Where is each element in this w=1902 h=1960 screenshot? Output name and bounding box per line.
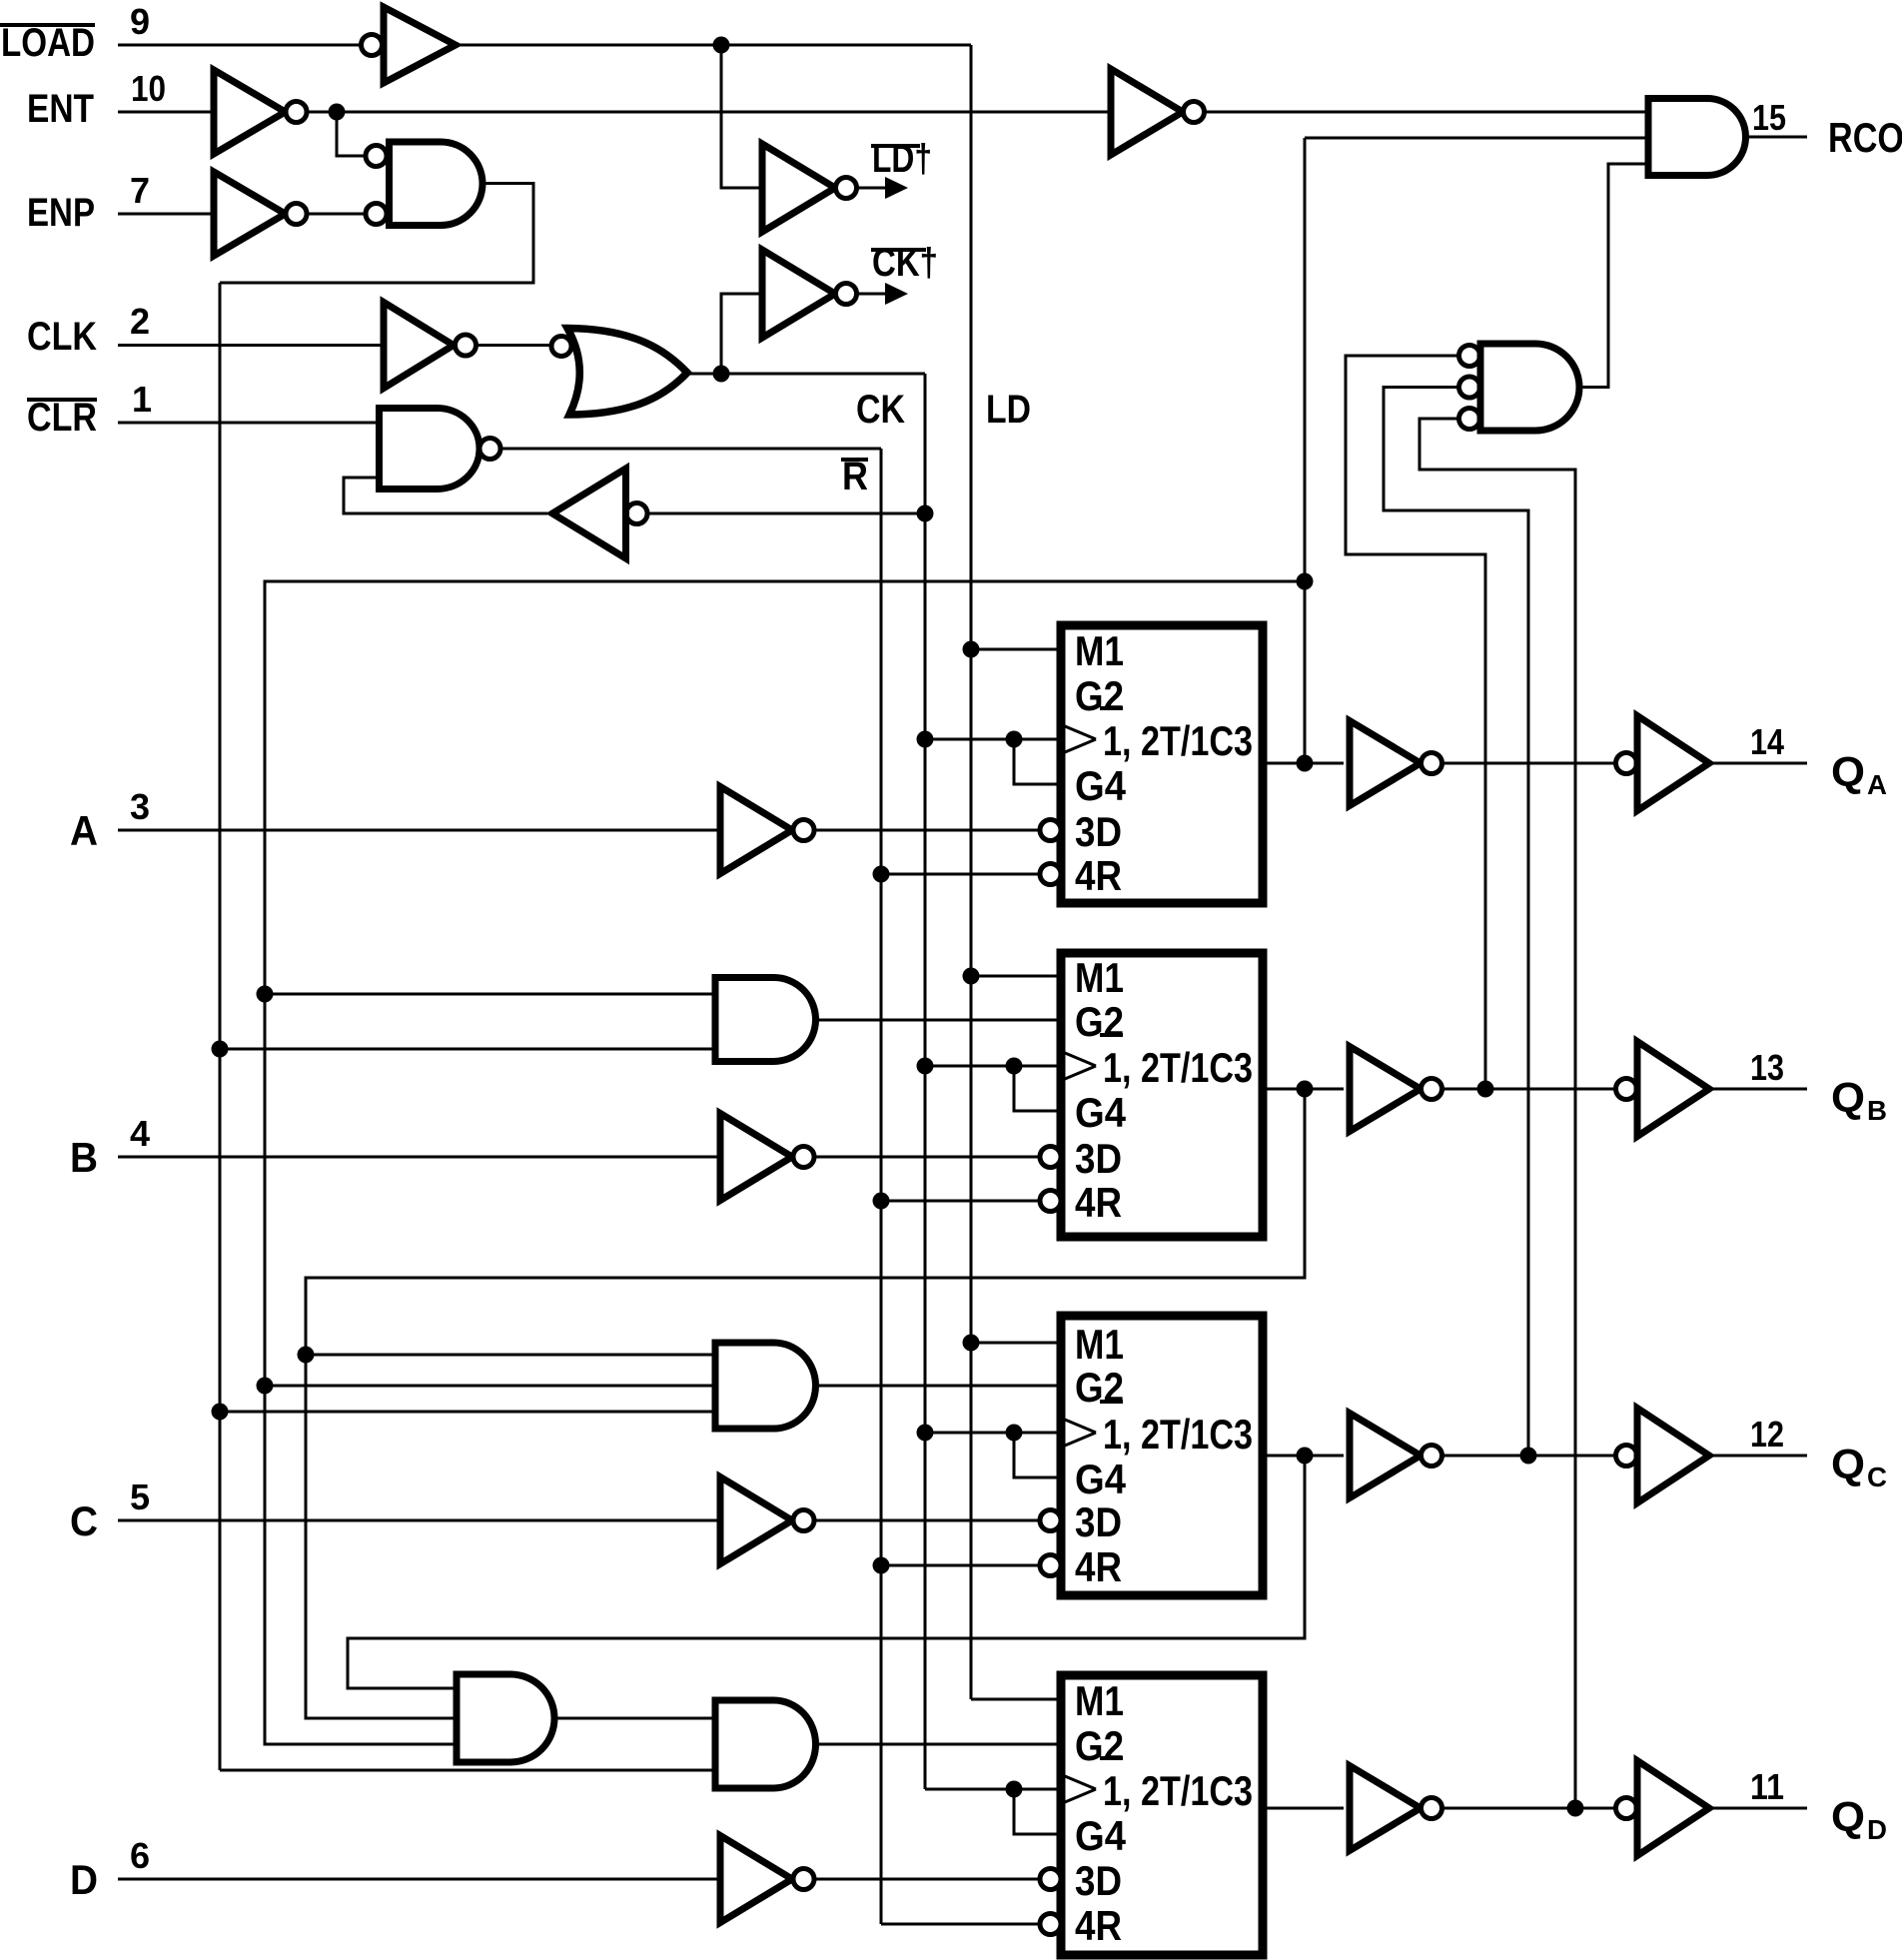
and-gate U16 stage-D collect: [457, 1674, 554, 1762]
inverter U3 ENP: [214, 172, 307, 256]
wire to CK-dagger arrow: [857, 293, 888, 296]
pin 14: [1750, 721, 1784, 762]
svg-text:10: 10: [131, 68, 166, 109]
label LD: [986, 388, 1031, 432]
or-gate U7 clock: [551, 329, 687, 416]
net LOAD: input pin 9 wire: [118, 44, 361, 47]
svg-text:4R: 4R: [1075, 1543, 1122, 1590]
wire CK rail (vertical x=926): [924, 374, 927, 1789]
buffer U10 CK-dagger output: [762, 250, 857, 338]
label D: [70, 1856, 98, 1903]
inverter data C: [720, 1477, 814, 1564]
inverter data D: [720, 1836, 814, 1923]
junction CK branch: [713, 366, 730, 383]
net D: input pin 6 wire: [118, 1878, 720, 1881]
svg-text:9: 9: [130, 1, 150, 42]
wire D-bar to 3D input: [814, 1878, 1040, 1881]
svg-text:G4: G4: [1075, 1089, 1127, 1136]
label RCO: [1828, 114, 1902, 161]
wire B-bar to 3D input: [814, 1156, 1040, 1159]
svg-text:A: A: [1867, 769, 1887, 800]
wire R-bar rail (vertical x=882): [880, 449, 883, 1924]
inverter data B: [720, 1114, 814, 1201]
label C: [70, 1497, 98, 1544]
nand-gate U6 clear: [380, 409, 501, 490]
svg-text:3D: 3D: [1075, 1857, 1122, 1904]
svg-text:14: 14: [1750, 721, 1784, 762]
svg-text:G4: G4: [1075, 1812, 1127, 1859]
svg-text:15: 15: [1752, 97, 1786, 138]
junction enable/U15: [212, 1404, 229, 1421]
net ENP: input pin 7 wire: [118, 213, 214, 216]
svg-text:G2: G2: [1075, 1722, 1124, 1769]
svg-text:M1: M1: [1075, 627, 1124, 674]
and-gate U4 enable (two input bubbles): [366, 142, 482, 226]
net CLK: input pin 2 wire: [118, 344, 384, 347]
svg-text:13: 13: [1750, 1047, 1784, 1088]
wire U16 output to U17: [554, 1717, 715, 1720]
wire LOAD buffer output to LD column: [456, 44, 971, 47]
svg-text:C: C: [70, 1497, 98, 1544]
buffer QC output (input bubble): [1616, 1409, 1710, 1503]
junction G4-D tap: [1006, 1781, 1023, 1798]
label QB: [1831, 1074, 1887, 1126]
and-gate U14 stage-B enable: [715, 978, 816, 1062]
junction CK/B: [917, 1058, 934, 1075]
wire QC to pin: [1709, 1455, 1807, 1458]
svg-text:3D: 3D: [1075, 1498, 1122, 1545]
wire M1-B from LD rail: [971, 975, 1057, 978]
svg-text:G4: G4: [1075, 1456, 1127, 1502]
svg-text:4R: 4R: [1075, 1179, 1122, 1226]
label LD-dagger (overbar): [871, 137, 932, 181]
svg-text:M1: M1: [1075, 954, 1124, 1001]
label CK: [856, 388, 905, 432]
junction QD output feedback: [1567, 1800, 1584, 1817]
buffer U1 LOAD (input bubble): [362, 7, 457, 83]
wire CK net: OR output to CK rail corner: [687, 373, 925, 376]
svg-text:CLR: CLR: [27, 396, 97, 440]
svg-text:12: 12: [1750, 1414, 1784, 1455]
wire QD riser to U13 bottom input: [1420, 419, 1575, 1808]
pin 15: [1752, 97, 1786, 138]
and-gate U17 stage-D enable: [715, 1700, 816, 1788]
label LOAD (overbar): [0, 21, 95, 65]
label CK-dagger (overbar): [871, 241, 938, 285]
svg-text:11: 11: [1750, 1766, 1784, 1807]
arrow CK-dagger: [885, 283, 908, 305]
svg-text:ENT: ENT: [27, 87, 94, 131]
svg-text:A: A: [70, 807, 98, 854]
wire ENP-bar to AND U4: [307, 213, 366, 216]
wire ENT tap to AND U4 input: [337, 112, 366, 156]
inverter QA internal: [1350, 721, 1442, 806]
pin 10: [131, 68, 166, 109]
svg-text:RCO: RCO: [1828, 114, 1902, 161]
label R (overbar): [841, 455, 868, 498]
junction LD/M1-C: [963, 1335, 980, 1352]
junction LD/M1-B: [963, 968, 980, 985]
pin 11: [1750, 1766, 1784, 1807]
net A: input pin 3 wire: [118, 829, 720, 832]
inverter QC internal: [1350, 1414, 1442, 1498]
wire CK-dagger branch: [721, 294, 762, 374]
wire M1-D from LD rail: [971, 1698, 1057, 1701]
label B: [70, 1134, 98, 1181]
svg-text:CLK: CLK: [27, 315, 97, 359]
svg-text:M1: M1: [1075, 1321, 1124, 1368]
svg-text:6: 6: [130, 1835, 150, 1876]
inverter QB internal: [1350, 1047, 1442, 1132]
wire QA to pin: [1709, 762, 1807, 765]
svg-text:1, 2T/1C3: 1, 2T/1C3: [1103, 1044, 1253, 1091]
wire QC to output buffer: [1442, 1455, 1616, 1458]
pin 6: [130, 1835, 150, 1876]
junction CK/A: [917, 731, 934, 748]
svg-text:4R: 4R: [1075, 852, 1122, 899]
pin 9: [130, 1, 150, 42]
junction QA cross: [1297, 573, 1314, 590]
wire QB output: [1263, 1088, 1344, 1091]
svg-text:M1: M1: [1075, 1677, 1124, 1724]
wire U14 output to G2-B: [816, 1019, 1057, 1022]
pin 4: [130, 1113, 150, 1154]
junction QB/U15: [298, 1347, 315, 1364]
wire enable rail (vertical x=220): [219, 283, 222, 1770]
and-gate U13 carry-collect (three input bubbles): [1459, 344, 1580, 431]
buffer QA output (input bubble): [1616, 716, 1710, 811]
wire to LD-dagger arrow: [857, 187, 888, 190]
wire ENT to RCO AND: [1205, 111, 1649, 114]
junction R/C: [873, 1557, 890, 1574]
svg-text:ENP: ENP: [27, 191, 95, 235]
wire QC output: [1263, 1455, 1344, 1458]
svg-text:1, 2T/1C3: 1, 2T/1C3: [1103, 1767, 1253, 1814]
pin 5: [130, 1476, 150, 1517]
flip-flop B (M1 G2 1,2T/1C3 G4 3D 4R): [1040, 953, 1263, 1237]
svg-text:Q: Q: [1831, 748, 1865, 795]
inverter U8 reset-feedback (input bubble, points left): [552, 469, 647, 558]
flip-flop A (M1 G2 1,2T/1C3 G4 3D 4R): [1040, 625, 1263, 903]
svg-text:G2: G2: [1075, 672, 1124, 719]
junction R/A: [873, 866, 890, 883]
wire U14 inputs: [220, 994, 715, 1049]
junction G4-A tap: [1006, 731, 1023, 748]
wire QA output: [1263, 762, 1344, 765]
svg-text:Q: Q: [1831, 1793, 1865, 1840]
pin 1: [132, 379, 152, 420]
wire G4-D tap: [1014, 1789, 1057, 1834]
wire QB to pin: [1709, 1088, 1807, 1091]
wire RCO output: [1746, 136, 1808, 139]
label QA: [1831, 748, 1887, 800]
svg-text:G2: G2: [1075, 998, 1124, 1045]
junction CK/C: [917, 1425, 934, 1442]
pin 2: [130, 301, 150, 342]
svg-text:1, 2T/1C3: 1, 2T/1C3: [1103, 717, 1253, 764]
svg-text:D: D: [70, 1856, 98, 1903]
wire U15 output to G2-C: [816, 1385, 1057, 1388]
junction G4-B tap: [1006, 1058, 1023, 1075]
wire M1-A from LD rail: [971, 648, 1057, 651]
label CLR (overbar): [27, 396, 97, 440]
wire 4R-C from R rail: [881, 1564, 1040, 1567]
inverter U11 ENT (second): [1111, 69, 1205, 155]
wire LD rail (vertical x=972): [970, 45, 973, 1699]
label ENT: [27, 87, 94, 131]
wire U16 inputs: [265, 1688, 457, 1744]
wire 4R-A from R rail: [881, 873, 1040, 876]
pin 12: [1750, 1414, 1784, 1455]
inverter QD internal: [1350, 1766, 1442, 1851]
net CLR: input pin 1 wire: [118, 422, 380, 425]
wire QC riser to U13 middle input: [1384, 388, 1528, 1457]
wire G4-A tap: [1014, 739, 1057, 784]
wire U8 input from CK rail: [647, 512, 925, 515]
junction QA output feedback: [1297, 755, 1314, 772]
svg-text:B: B: [1867, 1095, 1887, 1126]
wire U15 inputs: [220, 1355, 715, 1412]
junction QB output feedback: [1297, 1081, 1494, 1098]
label QD: [1831, 1793, 1887, 1845]
wire A-bar to 3D input: [814, 829, 1040, 832]
flip-flop D (M1 G2 1,2T/1C3 G4 3D 4R): [1040, 1675, 1263, 1955]
net B: input pin 4 wire: [118, 1156, 720, 1159]
wire CK-B from CK rail: [925, 1065, 1057, 1068]
wire R-bar net: U6 out to rail: [500, 448, 881, 451]
wire G4-C tap: [1014, 1433, 1057, 1477]
svg-text:2: 2: [130, 301, 150, 342]
wire 4R-B from R rail: [881, 1200, 1040, 1203]
label A: [70, 807, 98, 854]
wire CLK-bar to OR U7: [476, 344, 552, 347]
svg-text:D: D: [1867, 1814, 1887, 1845]
wire QB riser to U13 top input: [1346, 356, 1485, 1089]
and-gate U15 stage-C enable: [715, 1343, 816, 1429]
wire QB feedback rail: [306, 1089, 1305, 1718]
wire 4R-D from R rail: [881, 1923, 1040, 1926]
svg-text:5: 5: [130, 1476, 150, 1517]
svg-text:CK: CK: [856, 388, 905, 432]
svg-text:B: B: [70, 1134, 98, 1181]
wire QC feedback rail: [348, 1456, 1305, 1688]
junction QA/U14: [257, 986, 274, 1003]
pin 3: [130, 786, 150, 827]
svg-text:4: 4: [130, 1113, 150, 1154]
svg-text:1, 2T/1C3: 1, 2T/1C3: [1103, 1411, 1253, 1458]
net C: input pin 5 wire: [118, 1519, 720, 1522]
inverter U2 ENT: [214, 70, 307, 154]
svg-text:LD†: LD†: [872, 137, 932, 181]
wire QD to output buffer: [1442, 1807, 1616, 1810]
wire QB to output buffer: [1442, 1088, 1616, 1091]
wire M1-C from LD rail: [971, 1342, 1057, 1345]
junction QA/U15: [257, 1378, 274, 1395]
wire U4 output to enable rail: [220, 184, 533, 284]
wire LD-dagger branch: [721, 45, 762, 188]
svg-text:Q: Q: [1831, 1074, 1865, 1121]
inverter U5 CLK: [384, 303, 476, 389]
svg-text:3: 3: [130, 786, 150, 827]
svg-text:1: 1: [132, 379, 152, 420]
svg-text:LOAD: LOAD: [1, 21, 95, 65]
wire QA to output buffer: [1442, 762, 1616, 765]
svg-text:LD: LD: [986, 388, 1031, 432]
wire QA to RCO input: [1305, 137, 1648, 140]
junction R/B: [873, 1193, 890, 1210]
wire QD output: [1263, 1807, 1344, 1810]
and-gate U12 RCO: [1648, 99, 1746, 176]
wire CK-A from CK rail: [925, 738, 1057, 741]
junction ENT-bar: [329, 104, 346, 121]
svg-text:3D: 3D: [1075, 1135, 1122, 1182]
wire enable to U17 input: [220, 1769, 715, 1772]
svg-text:CK†: CK†: [872, 241, 938, 285]
junction G4-C tap: [1006, 1425, 1023, 1442]
buffer QD output (input bubble): [1616, 1761, 1710, 1856]
svg-text:4R: 4R: [1075, 1902, 1122, 1949]
junction enable/U14: [212, 1041, 229, 1058]
pin 13: [1750, 1047, 1784, 1088]
flip-flop C (M1 G2 1,2T/1C3 G4 3D 4R): [1040, 1316, 1263, 1595]
wire G4-B tap: [1014, 1066, 1057, 1111]
label CLK: [27, 315, 97, 359]
wire QA cross to stage rail: [265, 581, 1305, 1744]
wire U17 output to G2-D: [816, 1743, 1057, 1746]
wire ENT-bar across top: [307, 111, 1111, 114]
buffer U9 LD-dagger output: [762, 144, 857, 232]
buffer QB output (input bubble): [1616, 1042, 1710, 1137]
inverter data A: [720, 787, 814, 874]
pin 7: [130, 170, 150, 211]
svg-text:G4: G4: [1075, 762, 1127, 809]
svg-text:7: 7: [130, 170, 150, 211]
wire C-bar to 3D input: [814, 1519, 1040, 1522]
wire U6 feedback input: [344, 478, 547, 513]
junction CK/U8: [917, 505, 934, 522]
junction QC output feedback: [1297, 1448, 1537, 1465]
arrow LD-dagger: [885, 177, 908, 199]
wire CK-C from CK rail: [925, 1432, 1057, 1435]
label QC: [1831, 1441, 1887, 1492]
wire CK-D from CK rail: [925, 1788, 1057, 1791]
wire QA feedback riser x=1306: [1304, 138, 1307, 763]
svg-text:Q: Q: [1831, 1441, 1865, 1487]
wire U13 output to RCO input: [1579, 164, 1648, 388]
label ENP: [27, 191, 95, 235]
net ENT: input pin 10 wire: [118, 111, 214, 114]
svg-text:3D: 3D: [1075, 808, 1122, 855]
junction LOAD/LD-out: [713, 37, 730, 54]
svg-text:C: C: [1867, 1462, 1887, 1492]
wire QD to pin: [1709, 1807, 1807, 1810]
junction LD/M1-A: [963, 641, 980, 658]
